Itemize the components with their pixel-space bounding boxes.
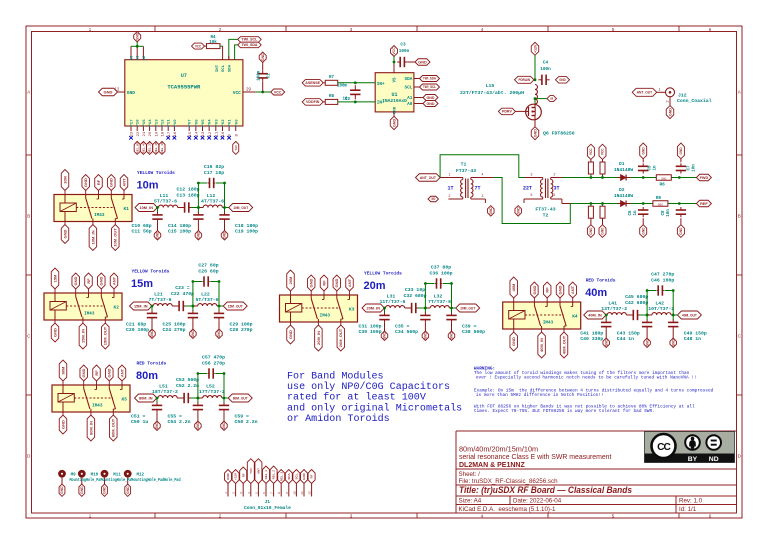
svg-text:GND: GND bbox=[81, 368, 86, 377]
svg-text:Date: 2022-06-04: Date: 2022-06-04 bbox=[513, 497, 562, 504]
svg-text:GND: GND bbox=[135, 32, 139, 40]
svg-text:J1: J1 bbox=[265, 499, 271, 505]
svg-text:560: 560 bbox=[661, 176, 666, 180]
svg-text:L51: L51 bbox=[159, 384, 168, 390]
svg-text:TCA9555PWR: TCA9555PWR bbox=[167, 84, 201, 91]
svg-text:40M_IN: 40M_IN bbox=[588, 312, 602, 317]
svg-text:SCL: SCL bbox=[404, 86, 412, 91]
svg-text:P02: P02 bbox=[222, 119, 226, 127]
svg-text:M10: M10 bbox=[91, 474, 99, 478]
svg-text:A1: A1 bbox=[407, 96, 413, 101]
svg-text:C20 100p: C20 100p bbox=[126, 327, 149, 333]
svg-text:GND: GND bbox=[424, 332, 428, 340]
svg-text:C21 68p: C21 68p bbox=[126, 321, 146, 327]
svg-text:10M_OUT: 10M_OUT bbox=[113, 228, 118, 247]
svg-text:SCL: SCL bbox=[294, 473, 298, 479]
svg-text:C38 560p: C38 560p bbox=[462, 329, 485, 335]
svg-text:L42: L42 bbox=[655, 301, 664, 307]
svg-text:GND: GND bbox=[645, 339, 649, 347]
svg-text:RF: RF bbox=[96, 179, 101, 185]
svg-text:ANT_OUT: ANT_OUT bbox=[637, 90, 653, 95]
svg-text:20M_OUT: 20M_OUT bbox=[460, 305, 475, 310]
svg-text:17: 17 bbox=[168, 131, 172, 136]
svg-text:16: 16 bbox=[174, 131, 178, 136]
svg-text:C54 2.2n: C54 2.2n bbox=[168, 419, 191, 425]
svg-text:C6: C6 bbox=[629, 210, 633, 216]
svg-text:ANT: ANT bbox=[570, 285, 575, 294]
svg-text:GND: GND bbox=[641, 227, 645, 235]
svg-text:IM43: IM43 bbox=[94, 213, 105, 218]
svg-text:ANT: ANT bbox=[256, 468, 260, 474]
svg-text:11: 11 bbox=[215, 131, 219, 136]
svg-text:20: 20 bbox=[149, 131, 153, 136]
svg-text:C55 =: C55 = bbox=[168, 413, 183, 419]
svg-text:3: 3 bbox=[482, 194, 484, 198]
svg-text:C29 100p: C29 100p bbox=[230, 321, 253, 327]
svg-text:Conn_01x10_Female: Conn_01x10_Female bbox=[244, 505, 291, 511]
svg-text:Sheet: /: Sheet: / bbox=[459, 471, 481, 478]
svg-text:P03: P03 bbox=[215, 119, 219, 127]
svg-text:use only NP0/C0G Capacitors: use only NP0/C0G Capacitors bbox=[287, 381, 450, 392]
svg-text:VS: VS bbox=[394, 77, 398, 83]
svg-text:A: A bbox=[738, 90, 741, 95]
svg-text:15M_OUT: 15M_OUT bbox=[103, 326, 108, 345]
svg-text:GND: GND bbox=[392, 119, 396, 127]
svg-text:FT37-43: FT37-43 bbox=[456, 168, 476, 174]
svg-text:C4: C4 bbox=[543, 61, 549, 66]
svg-text:P11: P11 bbox=[168, 119, 172, 127]
svg-text:ANT: ANT bbox=[347, 278, 352, 287]
svg-text:GND: GND bbox=[60, 486, 64, 494]
svg-text:GND: GND bbox=[288, 330, 293, 339]
svg-text:1T: 1T bbox=[447, 186, 453, 192]
svg-text:20M_OUT: 20M_OUT bbox=[338, 328, 343, 347]
svg-text:C14 180p: C14 180p bbox=[168, 223, 191, 229]
svg-text:GND: GND bbox=[52, 328, 57, 337]
svg-text:5: 5 bbox=[255, 492, 258, 494]
svg-text:GND: GND bbox=[641, 147, 645, 155]
svg-text:IM43: IM43 bbox=[84, 311, 95, 316]
svg-text:C47 270p: C47 270p bbox=[651, 272, 674, 278]
svg-text:TWI_SCL: TWI_SCL bbox=[423, 85, 436, 89]
svg-text:VCC: VCC bbox=[589, 148, 593, 155]
svg-text:C8: C8 bbox=[662, 210, 666, 216]
svg-text:GND: GND bbox=[73, 276, 78, 285]
svg-text:P07: P07 bbox=[189, 119, 193, 127]
svg-text:PDRAIN: PDRAIN bbox=[519, 78, 531, 82]
svg-text:C27 60p: C27 60p bbox=[198, 263, 218, 269]
svg-text:D2: D2 bbox=[619, 187, 625, 193]
svg-text:15M_OUT: 15M_OUT bbox=[228, 303, 243, 308]
svg-text:C22 470p: C22 470p bbox=[171, 291, 194, 297]
svg-text:6: 6 bbox=[263, 492, 266, 494]
svg-text:L21: L21 bbox=[154, 292, 163, 298]
svg-text:C1: C1 bbox=[268, 73, 272, 79]
svg-text:15: 15 bbox=[189, 131, 193, 136]
svg-text:11: 11 bbox=[301, 491, 304, 495]
svg-text:C44 1n: C44 1n bbox=[617, 336, 634, 342]
svg-text:GND: GND bbox=[557, 285, 562, 294]
svg-text:TX0: TX0 bbox=[249, 468, 253, 474]
svg-text:A1: A1 bbox=[137, 55, 141, 60]
svg-text:Q6 FDT86256: Q6 FDT86256 bbox=[543, 131, 575, 137]
svg-text:3: 3 bbox=[531, 172, 533, 176]
svg-text:5T/T37-6: 5T/T37-6 bbox=[195, 297, 218, 303]
svg-text:RF: RF bbox=[94, 370, 99, 376]
svg-text:22: 22 bbox=[137, 131, 141, 136]
svg-text:C18 180p: C18 180p bbox=[235, 223, 258, 229]
svg-text:P00: P00 bbox=[235, 119, 239, 127]
svg-text:7T/T37-6: 7T/T37-6 bbox=[148, 297, 171, 303]
svg-text:INA219AxD: INA219AxD bbox=[382, 98, 407, 104]
svg-text:5: 5 bbox=[531, 193, 533, 197]
svg-text:40M_OUT: 40M_OUT bbox=[561, 335, 566, 354]
svg-text:B: B bbox=[738, 214, 741, 219]
svg-text:R8: R8 bbox=[329, 95, 335, 99]
svg-text:1: 1 bbox=[449, 172, 451, 176]
svg-text:L31: L31 bbox=[387, 294, 396, 300]
svg-text:IN+: IN+ bbox=[377, 82, 385, 87]
svg-text:VDDFIN: VDDFIN bbox=[306, 100, 320, 104]
svg-text:RF: RF bbox=[321, 280, 326, 286]
svg-text:GND: GND bbox=[196, 422, 200, 430]
svg-text:REF: REF bbox=[700, 202, 708, 206]
svg-text:C10 68p: C10 68p bbox=[132, 223, 152, 229]
svg-text:GND: GND bbox=[450, 332, 454, 340]
svg-text:C13 180p: C13 180p bbox=[176, 193, 199, 199]
svg-text:80M: 80M bbox=[60, 366, 65, 374]
svg-text:K5: K5 bbox=[122, 396, 128, 402]
svg-text:C37 80p: C37 80p bbox=[431, 265, 451, 271]
svg-text:REL_1: REL_1 bbox=[264, 470, 268, 480]
svg-text:GND: GND bbox=[103, 486, 107, 494]
svg-text:29: 29 bbox=[246, 86, 251, 91]
svg-text:K3: K3 bbox=[349, 306, 355, 312]
svg-text:RF: RF bbox=[310, 474, 314, 478]
svg-text:GND: GND bbox=[383, 332, 387, 340]
svg-text:T1: T1 bbox=[461, 162, 467, 168]
svg-text:GND: GND bbox=[156, 231, 160, 239]
svg-text:R7: R7 bbox=[329, 76, 335, 80]
svg-text:13: 13 bbox=[202, 131, 206, 136]
svg-text:GND: GND bbox=[532, 285, 537, 294]
svg-text:C56 270p: C56 270p bbox=[202, 360, 225, 366]
svg-text:K2: K2 bbox=[114, 304, 120, 310]
svg-text:15m: 15m bbox=[131, 278, 153, 290]
svg-text:or Amidon Toroids: or Amidon Toroids bbox=[287, 413, 390, 424]
svg-text:ever ! Especially second harmo: ever ! Especially second harmonic notch … bbox=[476, 375, 697, 380]
svg-text:File: truSDX_RF-Classic_86256.: File: truSDX_RF-Classic_86256.sch bbox=[459, 478, 559, 485]
svg-text:2: 2 bbox=[449, 194, 451, 198]
svg-text:P12: P12 bbox=[162, 119, 166, 127]
svg-text:10m: 10m bbox=[137, 180, 159, 192]
svg-text:3: 3 bbox=[240, 492, 243, 494]
svg-text:K1: K1 bbox=[124, 206, 130, 212]
svg-text:80m/40m/20m/15m/10m: 80m/40m/20m/15m/10m bbox=[459, 445, 538, 454]
svg-text:T2: T2 bbox=[543, 213, 549, 219]
svg-text:FT37-43: FT37-43 bbox=[535, 206, 555, 212]
svg-text:P04: P04 bbox=[209, 119, 213, 127]
svg-text:1: 1 bbox=[225, 492, 228, 494]
svg-text:M9: M9 bbox=[71, 474, 77, 478]
svg-text:ND: ND bbox=[709, 456, 719, 463]
svg-text:L52: L52 bbox=[206, 384, 215, 390]
svg-text:IM43: IM43 bbox=[320, 313, 331, 318]
svg-text:10: 10 bbox=[293, 491, 296, 495]
svg-text:L41: L41 bbox=[608, 301, 617, 307]
svg-text:GND: GND bbox=[191, 330, 195, 338]
svg-text:560: 560 bbox=[658, 202, 663, 206]
svg-text:C45 680p: C45 680p bbox=[625, 294, 648, 300]
svg-text:R4: R4 bbox=[210, 36, 216, 40]
svg-text:TX0: TX0 bbox=[234, 145, 238, 151]
svg-text:10M: 10M bbox=[62, 175, 67, 183]
svg-text:RF: RF bbox=[551, 97, 554, 101]
svg-text:REL_20: REL_20 bbox=[148, 142, 152, 153]
svg-text:ANT_OUT: ANT_OUT bbox=[420, 176, 437, 180]
svg-text:23: 23 bbox=[131, 131, 135, 136]
svg-text:1n: 1n bbox=[634, 210, 638, 216]
svg-text:GND: GND bbox=[197, 231, 201, 239]
svg-text:C34 560p: C34 560p bbox=[395, 329, 418, 335]
svg-text:1N4148W: 1N4148W bbox=[614, 193, 634, 199]
svg-text:GND: GND bbox=[62, 229, 67, 238]
svg-text:10M_OUT: 10M_OUT bbox=[233, 205, 248, 210]
svg-text:REL_40: REL_40 bbox=[141, 142, 145, 153]
svg-text:U1: U1 bbox=[391, 92, 397, 98]
svg-text:4T/T37-6: 4T/T37-6 bbox=[201, 199, 224, 205]
svg-text:REL_80: REL_80 bbox=[135, 142, 139, 153]
svg-text:IM43: IM43 bbox=[92, 403, 103, 408]
svg-text:C59 =: C59 = bbox=[235, 413, 250, 419]
svg-text:KiCad E.D.A. eeschema (5.1.10: KiCad E.D.A. eeschema (5.1.10)-1 bbox=[459, 506, 557, 513]
svg-text:VCC: VCC bbox=[195, 44, 201, 48]
svg-text:BY: BY bbox=[688, 456, 698, 463]
svg-text:1: 1 bbox=[658, 88, 660, 92]
svg-text:C24 270p: C24 270p bbox=[163, 327, 186, 333]
svg-text:SDA: SDA bbox=[404, 77, 412, 82]
svg-text:R6: R6 bbox=[659, 182, 665, 187]
svg-text:GND: GND bbox=[107, 368, 112, 377]
svg-text:C5: C5 bbox=[649, 165, 653, 171]
svg-text:L32: L32 bbox=[434, 294, 443, 300]
svg-text:C32 680p: C32 680p bbox=[403, 293, 426, 299]
svg-text:GND: GND bbox=[155, 422, 159, 430]
svg-text:is more than 5MHz difference i: is more than 5MHz difference in Notch Po… bbox=[476, 393, 604, 398]
svg-text:times. Expect 70-75%. But FDT8: times. Expect 70-75%. But FDT86256 is wa… bbox=[474, 409, 655, 414]
svg-text:MountingHole_PaMountingHole_Pa: MountingHole_PaMountingHole_PaMountingHo… bbox=[70, 478, 181, 483]
svg-text:PDRV: PDRV bbox=[502, 110, 513, 114]
svg-text:L22: L22 bbox=[201, 292, 210, 298]
svg-text:C43 150p: C43 150p bbox=[617, 330, 640, 336]
svg-text:7T: 7T bbox=[474, 186, 480, 192]
svg-text:22T/FT37-43/abt. 200µH: 22T/FT37-43/abt. 200µH bbox=[460, 90, 524, 96]
svg-text:FWD: FWD bbox=[700, 176, 709, 180]
svg-text:C49 150p: C49 150p bbox=[684, 330, 707, 336]
svg-text:+12V: +12V bbox=[533, 44, 537, 53]
svg-text:J12: J12 bbox=[678, 93, 687, 99]
svg-text:5T/T37-6: 5T/T37-6 bbox=[154, 199, 177, 205]
svg-text:GND: GND bbox=[533, 129, 537, 137]
svg-text:10T/T37-2: 10T/T37-2 bbox=[648, 306, 674, 312]
svg-text:C39 =: C39 = bbox=[462, 323, 477, 329]
svg-text:C26 60p: C26 60p bbox=[198, 268, 218, 274]
svg-text:REL_10: REL_10 bbox=[160, 142, 164, 153]
svg-text:GND: GND bbox=[418, 60, 427, 64]
svg-text:ANT: ANT bbox=[111, 276, 116, 285]
svg-text:C28 270p: C28 270p bbox=[230, 327, 253, 333]
svg-text:10n: 10n bbox=[667, 209, 671, 217]
svg-text:TWI_SDA: TWI_SDA bbox=[423, 77, 436, 81]
svg-text:GND: GND bbox=[127, 90, 135, 96]
svg-text:10M_IN: 10M_IN bbox=[90, 230, 95, 244]
svg-text:15M_IN: 15M_IN bbox=[134, 303, 148, 308]
svg-text:7T/T37-6: 7T/T37-6 bbox=[428, 299, 451, 305]
svg-text:REL_3: REL_3 bbox=[279, 472, 283, 482]
svg-text:GND: GND bbox=[679, 227, 683, 235]
svg-text:GND: GND bbox=[60, 420, 65, 429]
svg-text:21: 21 bbox=[143, 131, 147, 136]
svg-text:SCL: SCL bbox=[222, 64, 226, 72]
svg-text:CC: CC bbox=[657, 442, 671, 453]
svg-text:GND: GND bbox=[217, 330, 221, 338]
svg-text:100m: 100m bbox=[337, 85, 348, 89]
svg-text:K4: K4 bbox=[572, 313, 578, 319]
svg-text:22T: 22T bbox=[523, 186, 532, 192]
svg-text:+12V: +12V bbox=[234, 473, 238, 480]
svg-text:GND: GND bbox=[431, 197, 435, 201]
svg-text:12: 12 bbox=[309, 491, 312, 495]
svg-text:VCC: VCC bbox=[274, 90, 282, 94]
svg-text:1: 1 bbox=[554, 193, 556, 197]
svg-text:C25 100p: C25 100p bbox=[163, 321, 186, 327]
svg-text:VCC: VCC bbox=[233, 90, 241, 96]
svg-text:serial resonance Class E with: serial resonance Class E with SWR measur… bbox=[459, 454, 612, 461]
svg-text:2: 2 bbox=[554, 172, 556, 176]
svg-text:P06: P06 bbox=[195, 119, 199, 127]
svg-text:GND: GND bbox=[261, 53, 265, 61]
svg-text:GND: GND bbox=[226, 472, 230, 480]
svg-text:10n: 10n bbox=[693, 164, 697, 172]
svg-text:GND: GND bbox=[109, 178, 114, 187]
svg-text:9: 9 bbox=[286, 492, 289, 494]
svg-text:11T/T37-6: 11T/T37-6 bbox=[380, 299, 406, 305]
svg-text:P10: P10 bbox=[174, 119, 178, 127]
svg-text:GND: GND bbox=[334, 278, 339, 287]
svg-text:RF: RF bbox=[86, 278, 91, 284]
svg-text:C46 100p: C46 100p bbox=[651, 277, 674, 283]
svg-text:17T/T37-2: 17T/T37-2 bbox=[199, 389, 225, 395]
svg-text:A2: A2 bbox=[143, 55, 147, 60]
svg-text:P16: P16 bbox=[137, 119, 141, 127]
svg-text:A: A bbox=[27, 90, 30, 95]
svg-text:M11: M11 bbox=[113, 474, 121, 478]
svg-text:C40 330p: C40 330p bbox=[580, 336, 603, 342]
svg-text:TWI_SCL: TWI_SCL bbox=[242, 38, 259, 42]
svg-text:C12 180p: C12 180p bbox=[176, 187, 199, 193]
svg-text:P14: P14 bbox=[149, 119, 153, 127]
svg-text:GND: GND bbox=[668, 108, 672, 116]
svg-text:GND: GND bbox=[489, 207, 493, 215]
svg-text:C17 18p: C17 18p bbox=[204, 170, 224, 176]
svg-text:C31 100p: C31 100p bbox=[359, 323, 382, 329]
svg-text:4: 4 bbox=[482, 172, 484, 176]
svg-text:GND: GND bbox=[427, 96, 435, 100]
svg-text:YELLOW Toroids: YELLOW Toroids bbox=[132, 269, 170, 275]
svg-text:L11: L11 bbox=[160, 193, 169, 199]
svg-text:RED Toroids: RED Toroids bbox=[586, 278, 616, 284]
svg-text:10: 10 bbox=[222, 131, 226, 136]
svg-text:20M_IN: 20M_IN bbox=[367, 305, 381, 310]
svg-text:4: 4 bbox=[248, 492, 251, 494]
svg-text:18T/T37-2: 18T/T37-2 bbox=[152, 389, 178, 395]
svg-text:C16 82p: C16 82p bbox=[204, 164, 224, 170]
svg-text:C19 100p: C19 100p bbox=[235, 229, 258, 235]
svg-text:A0: A0 bbox=[131, 55, 135, 60]
svg-text:13T/T37-2: 13T/T37-2 bbox=[601, 306, 627, 312]
svg-text:C15 100p: C15 100p bbox=[168, 229, 191, 235]
svg-text:40M_IN: 40M_IN bbox=[539, 338, 544, 352]
svg-text:10k: 10k bbox=[209, 40, 217, 45]
svg-text:C50 1u: C50 1u bbox=[131, 419, 148, 425]
svg-text:C3: C3 bbox=[400, 43, 406, 48]
svg-text:ASENSE: ASENSE bbox=[305, 81, 320, 85]
svg-text:15M: 15M bbox=[52, 274, 57, 282]
svg-text:SDA: SDA bbox=[228, 64, 232, 72]
svg-text:100n: 100n bbox=[540, 67, 551, 72]
svg-text:C33 10p: C33 10p bbox=[405, 287, 425, 293]
svg-text:8: 8 bbox=[278, 492, 281, 494]
svg-text:20M: 20M bbox=[288, 276, 293, 284]
svg-text:GND: GND bbox=[309, 278, 314, 287]
svg-text:14: 14 bbox=[195, 131, 199, 136]
svg-text:GND: GND bbox=[679, 147, 683, 155]
svg-text:19: 19 bbox=[155, 131, 159, 136]
svg-text:YELLOW Toroids: YELLOW Toroids bbox=[137, 170, 175, 176]
svg-text:B: B bbox=[27, 214, 30, 219]
svg-text:C48 1n: C48 1n bbox=[684, 336, 701, 342]
svg-text:IM43: IM43 bbox=[543, 320, 554, 325]
svg-text:12: 12 bbox=[209, 131, 213, 136]
svg-text:C7: C7 bbox=[688, 165, 692, 171]
svg-text:ANT: ANT bbox=[119, 368, 124, 377]
svg-text:GND: GND bbox=[601, 227, 605, 235]
svg-text:40M_OUT: 40M_OUT bbox=[682, 312, 697, 317]
svg-text:1n: 1n bbox=[654, 165, 658, 171]
svg-text:GND: GND bbox=[222, 422, 226, 430]
svg-text:and only original Micrometals: and only original Micrometals bbox=[287, 402, 462, 413]
svg-text:TWI_SDA: TWI_SDA bbox=[241, 43, 258, 47]
svg-text:80m: 80m bbox=[136, 370, 158, 382]
svg-text:C52 2.2n: C52 2.2n bbox=[176, 383, 199, 389]
svg-text:U7: U7 bbox=[181, 73, 187, 79]
svg-text:GND: GND bbox=[99, 276, 104, 285]
svg-text:GND: GND bbox=[559, 78, 566, 82]
svg-text:Conn_Coaxial: Conn_Coaxial bbox=[677, 98, 712, 104]
svg-text:C35 =: C35 = bbox=[395, 323, 410, 329]
svg-text:C42 680p: C42 680p bbox=[625, 300, 648, 306]
svg-text:IN-: IN- bbox=[377, 101, 385, 106]
svg-text:GND: GND bbox=[511, 337, 516, 346]
svg-text:REL_2: REL_2 bbox=[272, 470, 276, 480]
svg-text:18: 18 bbox=[162, 131, 166, 136]
svg-text:ANT: ANT bbox=[121, 178, 126, 187]
svg-text:A0: A0 bbox=[407, 102, 413, 107]
svg-text:C23 =: C23 = bbox=[175, 285, 190, 291]
svg-text:GND: GND bbox=[80, 486, 84, 494]
svg-text:3T: 3T bbox=[553, 186, 559, 192]
svg-text:100n: 100n bbox=[399, 49, 410, 54]
